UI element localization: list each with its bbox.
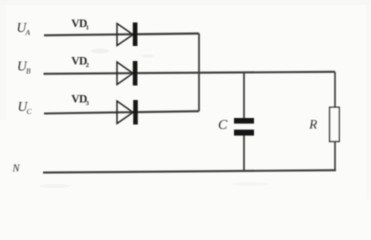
wire phase C line — [44, 111, 199, 113]
svg-text:VD: VD — [71, 94, 87, 106]
svg-text:B: B — [26, 67, 31, 76]
diode VD2 — [117, 61, 137, 86]
svg-text:N: N — [12, 164, 21, 175]
diode VD1 — [117, 23, 137, 47]
wire resistor top lead — [334, 72, 336, 108]
svg-text:C: C — [218, 118, 228, 133]
wire capacitor top lead — [243, 72, 245, 118]
wire neutral rail N — [43, 170, 336, 172]
resistor R box — [330, 107, 340, 141]
wire capacitor bottom lead — [243, 135, 245, 172]
svg-text:R: R — [308, 116, 317, 131]
wire phase A line — [44, 34, 199, 36]
svg-text:A: A — [25, 28, 31, 37]
svg-text:1: 1 — [86, 25, 89, 32]
wire resistor bottom lead — [334, 142, 336, 171]
wire cathode bus vertical — [198, 34, 200, 112]
capacitor C plates — [234, 118, 254, 136]
svg-text:VD: VD — [71, 18, 87, 30]
svg-text:2: 2 — [86, 62, 89, 69]
diode VD3 — [117, 100, 138, 125]
svg-text:VD: VD — [71, 56, 87, 68]
wire phase B line — [44, 72, 336, 74]
